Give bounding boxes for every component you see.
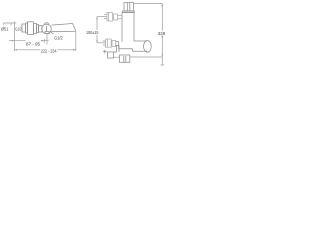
- lever stem lines: [127, 3, 130, 11]
- wire: right dim extension top: [134, 3, 163, 5]
- node: arrowhead under 328 label: [161, 36, 163, 38]
- upper union adapter box: [114, 14, 118, 20]
- lower union adapter box: [112, 40, 116, 46]
- wire: right dim extension bottom segments: [114, 56, 163, 58]
- node: wall reference extension line: [14, 22, 16, 52]
- spout end ellipse: [144, 41, 152, 53]
- body column: [122, 12, 134, 41]
- union block side view: [22, 24, 26, 32]
- svg-text:222 - 234: 222 - 234: [41, 48, 57, 53]
- collar under lever: [123, 11, 135, 12]
- wire: 150 dim extension top: [97, 16, 107, 18]
- node: dim 222-234 arrowheads: [15, 49, 76, 51]
- upper union thread lines: [104, 15, 107, 19]
- node: 150 dim arrowheads: [96, 17, 98, 43]
- elbow cross mark: [103, 50, 107, 53]
- svg-text:150±15: 150±15: [86, 30, 99, 35]
- svg-text:87 - 95: 87 - 95: [26, 41, 40, 46]
- wire: dim 87-95 line with outside arrow tails: [9, 34, 49, 44]
- svg-text:Ø51: Ø51: [1, 27, 9, 32]
- lower union box: [106, 39, 112, 47]
- node: dim 87-95 arrowheads: [12, 40, 44, 42]
- handle center dot: [46, 28, 47, 29]
- upper union inner line: [108, 13, 110, 22]
- upper union neck lines: [118, 15, 123, 18]
- wire: dim 222-234 line: [15, 49, 76, 51]
- lower union neck lines: [116, 42, 119, 46]
- spout side view: [51, 24, 76, 32]
- spout tube front view: [133, 41, 148, 51]
- lower union thread lines: [103, 41, 106, 45]
- valve body side view: [28, 22, 34, 35]
- hose connector box: [120, 55, 130, 62]
- node: right dim bottom tick: [160, 64, 164, 66]
- handle stem: [39, 26, 43, 33]
- svg-text:328: 328: [158, 31, 166, 36]
- svg-text:G1/2: G1/2: [15, 27, 22, 32]
- wire: 150 dim extension bottom: [97, 42, 106, 44]
- upper union box: [107, 13, 113, 22]
- lever knob front view: [124, 3, 134, 11]
- wire: top-left chained dimension line: [4, 23, 17, 25]
- handle knob circle: [42, 24, 52, 34]
- wire: right dim vertical line: [161, 4, 163, 65]
- body collar: [34, 24, 37, 34]
- leader line to outlet G1/2 label: [51, 32, 54, 34]
- hand-shower outlet under body: [45, 32, 49, 34]
- svg-text:G1/2: G1/2: [54, 35, 63, 40]
- hose connector inner tube: [124, 56, 126, 62]
- lower union inner line: [106, 39, 108, 47]
- node: right dim arrowheads: [162, 4, 164, 57]
- body neck: [37, 25, 39, 33]
- hose elbow box: [108, 52, 114, 58]
- node: spout tip extension line: [75, 32, 77, 51]
- wire: 150 dim vertical line: [96, 17, 98, 43]
- hose pipe neck: [114, 45, 120, 52]
- escutcheon side view: [26, 23, 28, 33]
- handle inner line: [46, 26, 48, 32]
- lever bump on top of knob: [44, 23, 48, 25]
- body lower flange: [119, 42, 133, 49]
